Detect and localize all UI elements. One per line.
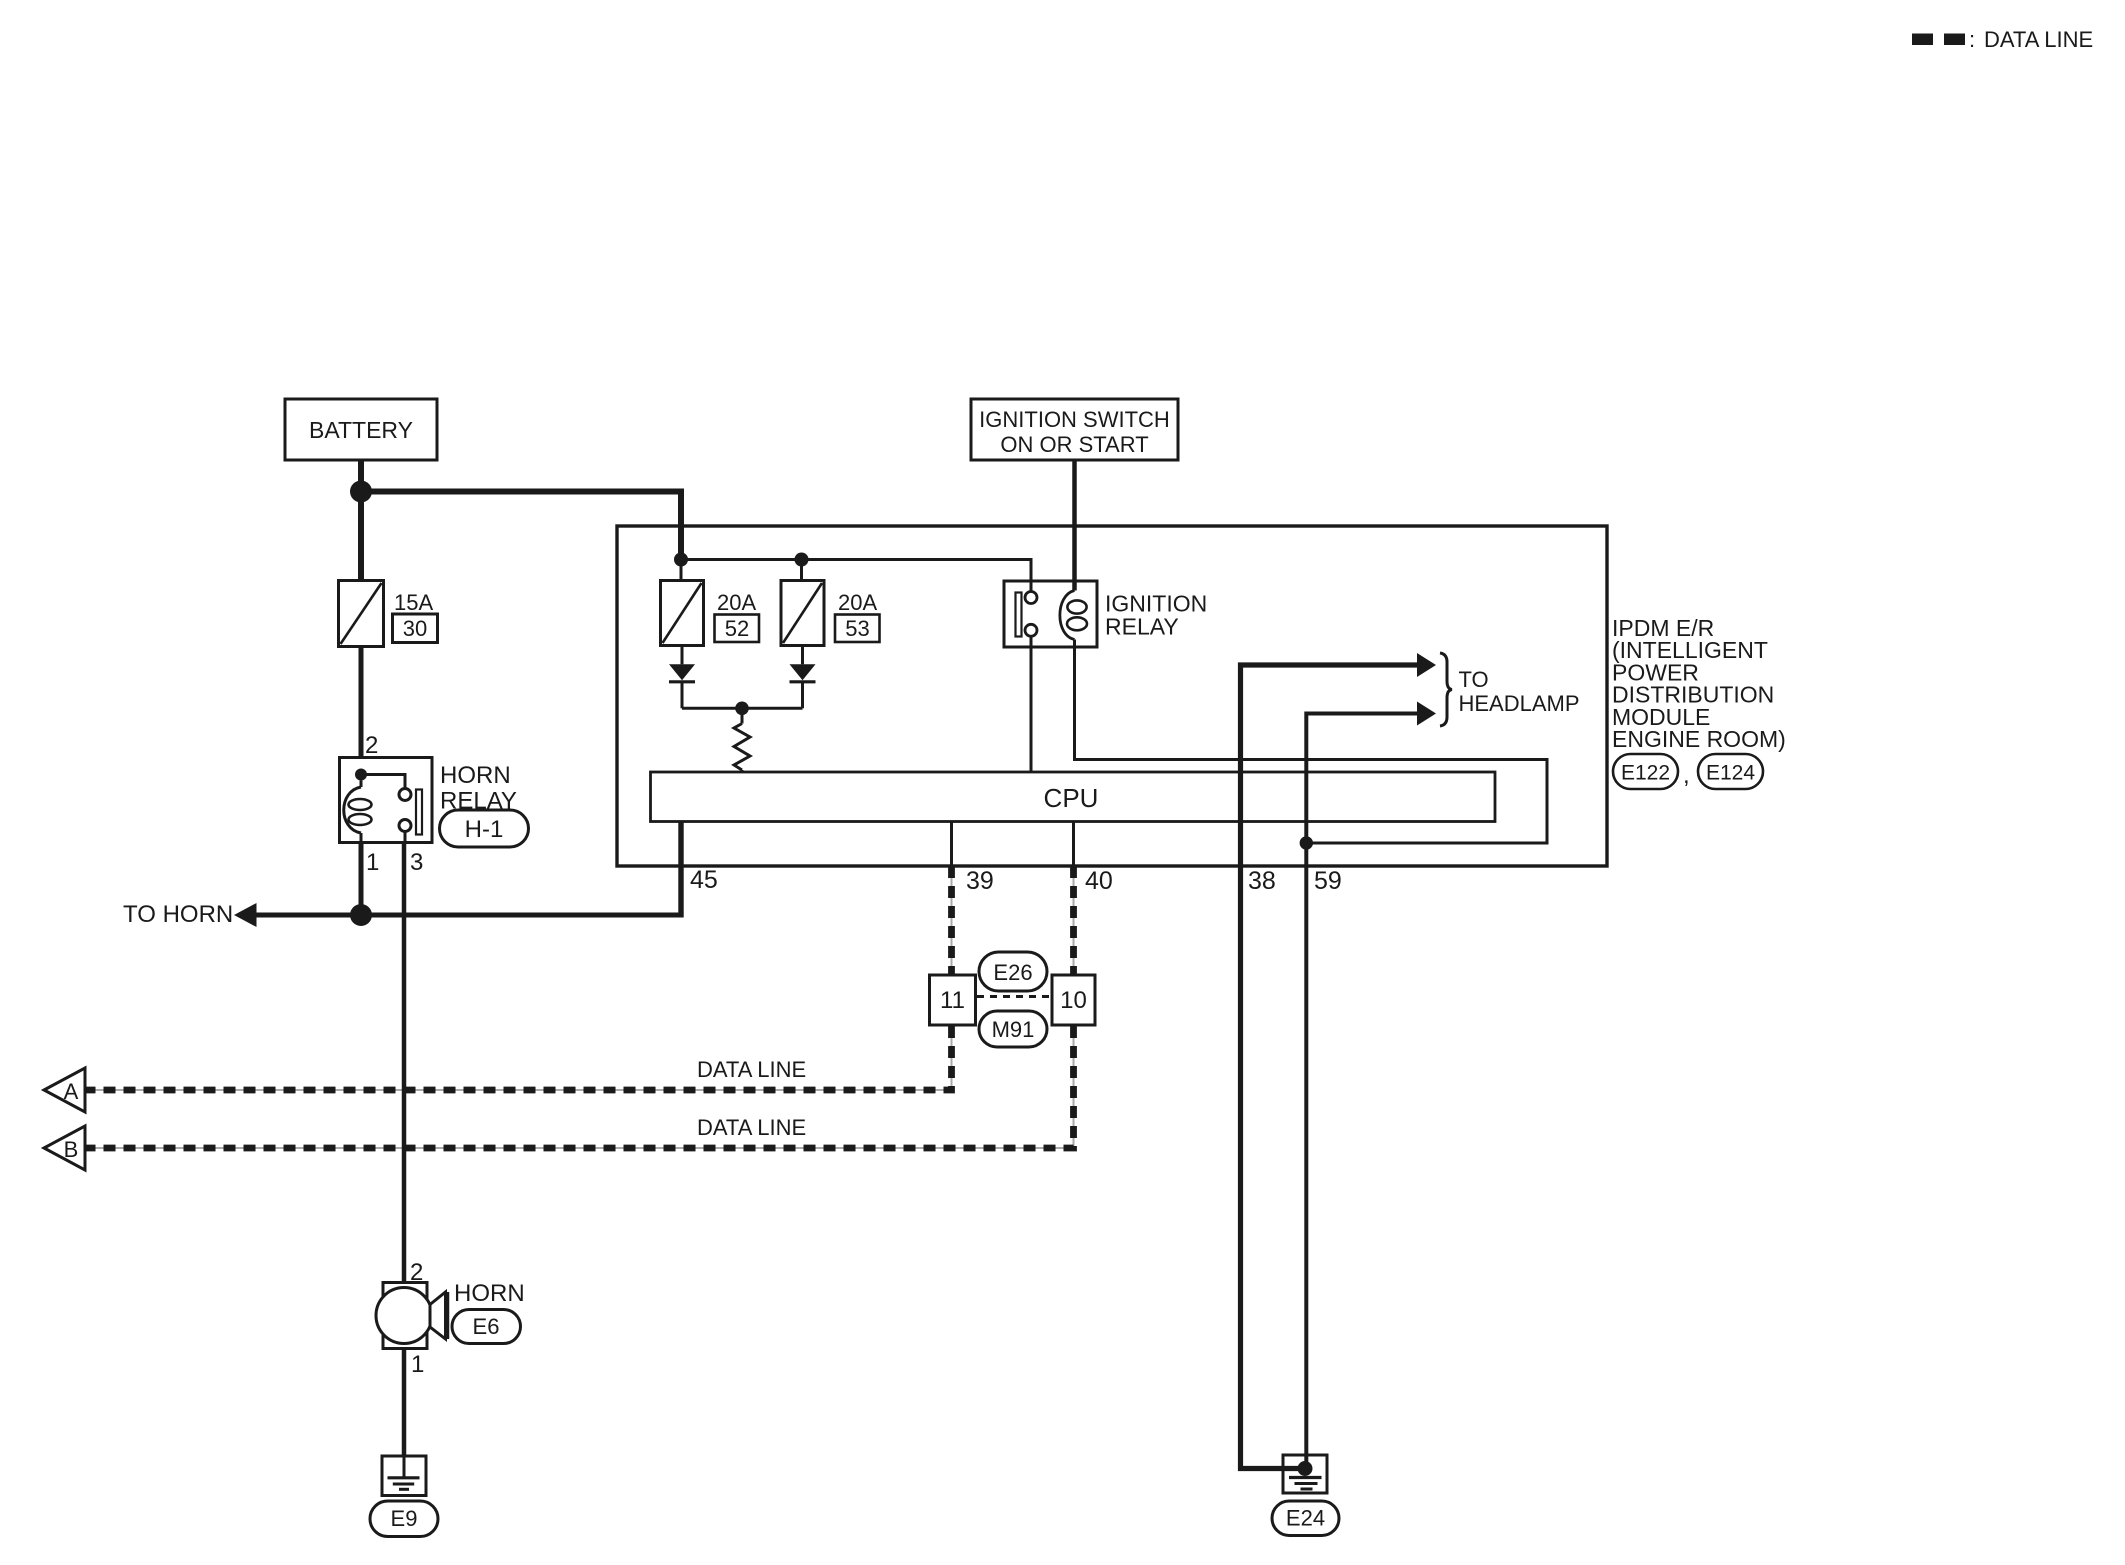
wire ignition relay contact to CPU <box>1030 636 1033 772</box>
node pin 59 junction <box>1300 836 1313 849</box>
svg-text:CPU: CPU <box>1044 783 1099 813</box>
connector E26 <box>979 952 1047 991</box>
svg-text:E124: E124 <box>1706 762 1755 785</box>
svg-text:,: , <box>1683 762 1690 789</box>
wire battery feed drop into IPDM <box>678 492 684 560</box>
diode D1 under fuse 52 <box>669 646 742 709</box>
svg-text:52: 52 <box>725 616 749 641</box>
svg-text:E122: E122 <box>1621 762 1670 785</box>
node fuse53 tap <box>795 553 809 567</box>
wire battery feed horizontal <box>361 489 684 495</box>
wire ignition switch to ignition relay coil <box>1072 460 1077 591</box>
resistor R1 <box>734 708 750 772</box>
svg-text:3: 3 <box>410 849 423 876</box>
battery B1 <box>285 399 437 460</box>
svg-text:M91: M91 <box>992 1017 1035 1042</box>
svg-text:2: 2 <box>365 732 378 759</box>
svg-text:1: 1 <box>366 849 379 876</box>
svg-text:ON OR START: ON OR START <box>1000 432 1148 457</box>
svg-text:IGNITION SWITCH: IGNITION SWITCH <box>979 407 1170 432</box>
wire bus y559 to ignition relay contact <box>681 560 1031 592</box>
label IPDM E/R block <box>1612 615 1786 752</box>
svg-text:30: 30 <box>403 616 427 641</box>
wire tap to fuse 52 <box>680 560 683 582</box>
connector E124 <box>1698 754 1763 789</box>
wire data line B underlay <box>86 866 1074 1148</box>
wire data line A underlay <box>86 866 952 1090</box>
fuse 52 <box>661 581 757 646</box>
svg-text:E6: E6 <box>473 1314 500 1339</box>
svg-text:ENGINE ROOM): ENGINE ROOM) <box>1612 726 1786 752</box>
svg-text:E26: E26 <box>993 960 1032 985</box>
svg-text:DATA LINE: DATA LINE <box>697 1115 806 1140</box>
relay K2 ignition relay <box>1004 581 1097 647</box>
svg-text:1: 1 <box>411 1351 424 1378</box>
fuse 53 <box>781 581 877 646</box>
connector E122 <box>1613 754 1678 789</box>
svg-text:RELAY: RELAY <box>1105 614 1179 640</box>
wire battery junction down to fuse 15A <box>358 492 364 582</box>
svg-text:HEADLAMP: HEADLAMP <box>1459 691 1580 716</box>
wire horn relay pin3 down to horn <box>402 843 407 1284</box>
ground E24 <box>1283 1455 1327 1493</box>
svg-text:15A: 15A <box>394 590 433 615</box>
svg-text:E24: E24 <box>1286 1506 1325 1531</box>
svg-text:E9: E9 <box>391 1506 418 1531</box>
wire horn relay pin1 down to TO HORN junction <box>359 843 364 915</box>
svg-text:40: 40 <box>1085 867 1113 895</box>
svg-text:H-1: H-1 <box>465 816 504 843</box>
wire TO HORN horizontal <box>254 913 681 918</box>
connector pin box 10 <box>1052 975 1095 1025</box>
horn E6 <box>376 1283 447 1349</box>
brace to headlamp <box>1440 653 1452 726</box>
value label 53 <box>835 615 880 643</box>
svg-text:59: 59 <box>1314 867 1342 895</box>
wire data line B dashed <box>86 866 1074 1148</box>
IPDM E/R enclosure box <box>617 526 1607 866</box>
svg-text::: : <box>1969 27 1975 52</box>
value label 52 <box>715 615 760 643</box>
node diode junction <box>735 702 749 716</box>
svg-text:A: A <box>64 1079 79 1104</box>
arrow to headlamp 2 <box>1417 702 1436 726</box>
arrow to headlamp 1 <box>1417 653 1436 677</box>
svg-text:11: 11 <box>940 987 965 1014</box>
connector E6 <box>452 1310 521 1344</box>
connector pin box 11 <box>930 975 976 1025</box>
wire headlamp output 1 / pin 38 <box>1241 665 1419 1469</box>
wire horn to ground E9 <box>402 1349 407 1457</box>
wire battery to junction <box>358 460 364 492</box>
ground E9 <box>382 1456 426 1496</box>
node A arrow <box>44 1068 85 1112</box>
arrow TO HORN <box>234 903 257 927</box>
svg-text:20A: 20A <box>838 590 877 615</box>
node battery junction <box>350 481 372 503</box>
svg-text:DATA LINE: DATA LINE <box>697 1057 806 1082</box>
ignition switch box <box>971 399 1178 460</box>
CPU block <box>651 772 1496 822</box>
svg-text:53: 53 <box>845 616 869 641</box>
value label 30 <box>393 614 438 643</box>
svg-text:HORN: HORN <box>454 1280 525 1307</box>
wire tap to fuse 53 <box>800 560 803 582</box>
wire dotted link between pins 11 and 10 <box>977 995 1051 998</box>
svg-text:38: 38 <box>1248 867 1276 895</box>
relay K1 horn relay <box>340 758 433 844</box>
connector E24 <box>1272 1501 1339 1536</box>
svg-text:DATA LINE: DATA LINE <box>1984 27 2093 52</box>
connector H-1 <box>440 810 529 847</box>
wire pin45 vertical <box>678 822 683 918</box>
node fuse52 tap <box>674 553 688 567</box>
svg-text:10: 10 <box>1060 987 1087 1014</box>
svg-text:BATTERY: BATTERY <box>309 417 413 443</box>
svg-text:20A: 20A <box>717 590 756 615</box>
wire pin 39 stub <box>950 822 953 867</box>
legend data line symbol <box>1912 27 2093 52</box>
svg-text:45: 45 <box>690 866 718 894</box>
wire fuse 15A to horn relay pin 2 <box>359 647 364 759</box>
diode D2 under fuse 53 <box>742 646 816 709</box>
svg-text:39: 39 <box>966 867 994 895</box>
wire headlamp output 2 / pin 59 <box>1306 714 1418 1469</box>
fuse 15A <box>339 581 434 647</box>
svg-text:HORN: HORN <box>440 762 511 789</box>
svg-text:TO HORN: TO HORN <box>123 901 233 928</box>
node TO HORN junction <box>350 904 372 926</box>
svg-text:B: B <box>64 1137 79 1162</box>
wire ignition relay coil return routing <box>1075 640 1548 844</box>
wire pin 40 stub <box>1072 822 1075 867</box>
node B arrow <box>44 1126 85 1170</box>
wire data line A dashed <box>86 866 952 1090</box>
connector M91 <box>979 1011 1047 1047</box>
svg-text:TO: TO <box>1459 667 1489 692</box>
connector E9 <box>370 1501 438 1537</box>
